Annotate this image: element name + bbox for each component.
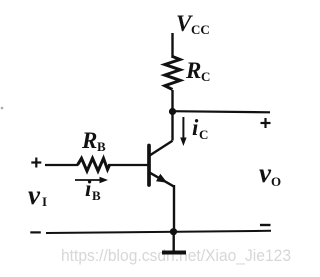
wire Rc to collector node xyxy=(171,90,173,112)
plus sign left xyxy=(31,158,41,168)
svg-text:R: R xyxy=(81,128,97,153)
current arrow iB xyxy=(75,177,108,183)
svg-text:B: B xyxy=(92,188,101,203)
current arrow iC xyxy=(180,117,186,146)
minus sign right xyxy=(260,224,271,226)
transistor Q1 base bar xyxy=(147,146,151,186)
wire RB to base xyxy=(108,164,148,166)
svg-text:C: C xyxy=(201,69,210,84)
svg-text:I: I xyxy=(42,194,47,209)
svg-text:v: v xyxy=(28,180,41,210)
svg-text:CC: CC xyxy=(191,22,210,37)
node B (emitter / ground rail junction) xyxy=(170,228,177,235)
scan speck xyxy=(1,107,4,110)
svg-text:R: R xyxy=(185,58,201,83)
svg-text:https://blog.csdn.net/Xiao_Jie: https://blog.csdn.net/Xiao_Jie123 xyxy=(61,246,291,265)
wire emitter vertical xyxy=(173,185,175,232)
svg-text:C: C xyxy=(199,127,208,142)
plus sign right xyxy=(261,118,271,128)
svg-text:O: O xyxy=(271,174,281,189)
svg-text:i: i xyxy=(85,176,92,201)
wire bottom rail xyxy=(46,231,271,233)
transistor Q1 collector lead xyxy=(150,141,173,156)
ground xyxy=(172,232,174,253)
wire output top xyxy=(173,111,271,112)
wire input to RB xyxy=(45,164,78,166)
transistor Q1 emitter lead with arrow xyxy=(150,173,174,187)
svg-text:B: B xyxy=(97,139,106,154)
wire collector vertical xyxy=(171,111,173,141)
minus sign left xyxy=(30,231,41,233)
wire Vcc to Rc xyxy=(171,33,173,58)
resistor RC xyxy=(165,57,180,90)
svg-text:i: i xyxy=(192,115,199,140)
node A (collector output node) xyxy=(169,108,176,115)
resistor RB xyxy=(78,158,110,171)
